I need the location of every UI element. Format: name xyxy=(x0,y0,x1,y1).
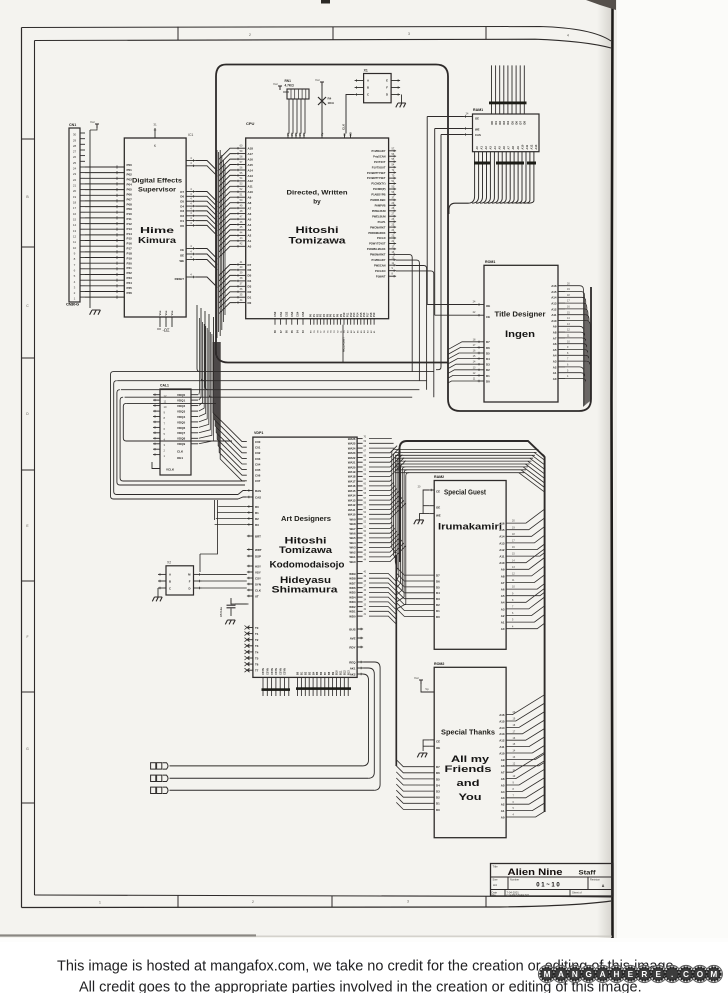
svg-text:B13: B13 xyxy=(347,670,350,675)
svg-text:A7: A7 xyxy=(507,146,511,150)
svg-text:CN1: CN1 xyxy=(69,123,76,127)
svg-text:VDQ9: VDQ9 xyxy=(177,442,186,446)
svg-text:CSYN: CSYN xyxy=(275,668,278,675)
IC U5 right A pins fan to trunk xyxy=(506,509,544,629)
svg-text:21: 21 xyxy=(73,184,77,188)
svg-text:D5: D5 xyxy=(436,777,440,781)
svg-text:A2: A2 xyxy=(501,803,505,807)
wires Art R pins to bundle xyxy=(215,507,247,525)
svg-text:Tomizawa: Tomizawa xyxy=(289,236,346,246)
svg-text:Hideyasu: Hideyasu xyxy=(280,575,331,585)
wires X2 to U4 xyxy=(202,574,247,588)
svg-text:Vss: Vss xyxy=(158,310,162,315)
svg-text:R3: R3 xyxy=(255,523,259,527)
svg-text:A13: A13 xyxy=(499,732,505,736)
svg-text:P23: P23 xyxy=(127,276,133,280)
svg-text:Hitoshi: Hitoshi xyxy=(285,536,327,546)
svg-text:D4: D4 xyxy=(436,591,440,595)
svg-text:A10: A10 xyxy=(520,144,524,149)
page top edge registration mark xyxy=(321,0,330,4)
connector CN1 body xyxy=(69,128,80,302)
svg-text:and: and xyxy=(457,777,480,788)
svg-text:OE: OE xyxy=(486,304,490,308)
svg-text:CLK: CLK xyxy=(177,450,184,454)
svg-text:A14: A14 xyxy=(499,535,505,539)
svg-text:A11: A11 xyxy=(248,185,254,189)
svg-text:A7: A7 xyxy=(553,336,557,340)
svg-text:Staff: Staff xyxy=(579,869,597,876)
svg-text:A16: A16 xyxy=(551,284,557,288)
svg-text:HSY: HSY xyxy=(255,564,261,568)
svg-text:A11: A11 xyxy=(499,745,505,749)
svg-text:CPU: CPU xyxy=(246,121,255,126)
svg-text:A1: A1 xyxy=(479,146,483,150)
wire CN2 to bus xyxy=(170,765,363,767)
svg-text:P1VREADY: P1VREADY xyxy=(372,258,386,262)
svg-text:IC1: IC1 xyxy=(188,133,193,137)
svg-text:A2: A2 xyxy=(553,365,557,369)
svg-text:VDQ7: VDQ7 xyxy=(177,431,186,435)
svg-text:A4: A4 xyxy=(248,223,252,227)
svg-text:P19: P19 xyxy=(127,256,133,260)
svg-text:R2: R2 xyxy=(255,517,259,521)
Special Guest enclosure bus ring with right trunk xyxy=(400,441,545,812)
IC U5 left control pins xyxy=(429,489,434,491)
svg-text:A4: A4 xyxy=(553,354,557,358)
IC U2 left pin labels and stubs xyxy=(236,147,246,149)
power Vcc at U6 xyxy=(420,680,422,684)
svg-text:E: E xyxy=(628,970,634,979)
svg-text:A8: A8 xyxy=(501,764,505,768)
IC U7 left pin stubs xyxy=(464,116,473,118)
svg-text:2: 2 xyxy=(252,900,254,904)
svg-text:ROM2: ROM2 xyxy=(434,662,444,666)
svg-text:A0: A0 xyxy=(501,627,505,631)
IC U2 bottom pins group 1 xyxy=(274,319,276,325)
svg-text:CLK: CLK xyxy=(255,588,262,592)
svg-text:WE: WE xyxy=(436,513,441,517)
svg-text:P1WAIT: P1WAIT xyxy=(376,274,386,278)
svg-text:19: 19 xyxy=(73,195,77,199)
svg-text:H: H xyxy=(614,970,620,979)
svg-text:C01: C01 xyxy=(255,446,261,450)
resistor comb RN2 below U4 xyxy=(262,677,264,696)
IC U5 RAM2 body xyxy=(434,481,506,650)
svg-text:A18: A18 xyxy=(248,147,254,151)
svg-text:P22: P22 xyxy=(127,271,133,275)
svg-text:1KΩ: 1KΩ xyxy=(328,101,335,105)
svg-text:3: 3 xyxy=(407,900,409,904)
svg-text:Tomizawa: Tomizawa xyxy=(279,545,333,555)
svg-text:WA21: WA21 xyxy=(348,461,356,465)
svg-text:WA4: WA4 xyxy=(349,541,356,545)
svg-text:P12: P12 xyxy=(127,222,133,226)
CPU enclosure outline with right trunk down to Ingen bottom xyxy=(226,65,591,412)
svg-text:16: 16 xyxy=(73,212,77,216)
svg-text:WA6: WA6 xyxy=(349,532,356,536)
wire CN4 to bus xyxy=(170,789,375,791)
svg-text:A3: A3 xyxy=(248,228,252,232)
svg-text:CS2: CS2 xyxy=(284,311,288,317)
svg-text:C: C xyxy=(367,93,369,97)
svg-text:A4: A4 xyxy=(493,883,497,887)
svg-text:Art Designers: Art Designers xyxy=(281,514,331,523)
wire CE to Ingen xyxy=(435,314,477,316)
svg-text:PrtySCAN: PrtySCAN xyxy=(373,154,386,158)
svg-text:R4: R4 xyxy=(328,97,332,101)
bus trunk left of Special Guest down to Special Thanks xyxy=(395,555,397,766)
svg-text:P20: P20 xyxy=(127,261,133,265)
svg-text:C02: C02 xyxy=(255,451,261,455)
svg-text:WD0: WD0 xyxy=(349,614,356,618)
svg-text:B: B xyxy=(169,579,171,583)
svg-text:A16: A16 xyxy=(248,157,254,161)
svg-text:Alien Nine: Alien Nine xyxy=(508,867,563,877)
svg-text:P25: P25 xyxy=(127,286,133,290)
IC U2 top pins xyxy=(287,134,289,139)
svg-text:A1: A1 xyxy=(501,621,505,625)
page bottom edge xyxy=(0,934,256,936)
bus RAM1 top data lines to enclosure xyxy=(491,65,493,114)
svg-text:.: . xyxy=(671,970,673,979)
ground at X1 xyxy=(401,95,403,104)
ground at U6 xyxy=(417,753,427,757)
svg-text:Shimamura: Shimamura xyxy=(272,585,339,595)
svg-text:B12: B12 xyxy=(344,670,347,675)
svg-text:Ingen: Ingen xyxy=(505,328,535,339)
svg-text:CAS: CAS xyxy=(475,133,481,137)
oscillator module X1 xyxy=(364,74,392,103)
svg-text:D0: D0 xyxy=(436,615,440,619)
svg-text:WA3: WA3 xyxy=(349,546,356,550)
IC U3 left pins OE CE xyxy=(477,304,484,306)
svg-text:VDQ6: VDQ6 xyxy=(177,426,186,430)
wire verticals RAM to Ingen OE CE xyxy=(426,117,428,305)
svg-text:P01: P01 xyxy=(127,168,133,172)
main horizontal bus lines upper group xyxy=(114,372,434,398)
svg-text:WA2: WA2 xyxy=(349,550,356,554)
svg-text:P13: P13 xyxy=(127,227,133,231)
svg-text:WA19: WA19 xyxy=(348,470,356,474)
svg-text:A17: A17 xyxy=(248,152,254,156)
svg-text:A4: A4 xyxy=(501,601,505,605)
braid tails down to bus xyxy=(197,305,214,397)
svg-text:CE: CE xyxy=(486,315,490,319)
svg-text:CE: CE xyxy=(436,490,440,494)
svg-text:D3: D3 xyxy=(486,363,490,367)
svg-text:B11: B11 xyxy=(340,670,343,675)
IC U6 left control pins xyxy=(429,739,434,741)
svg-text:WA25: WA25 xyxy=(348,442,356,446)
svg-text:D4: D4 xyxy=(248,279,252,283)
svg-text:D1: D1 xyxy=(486,374,490,378)
svg-text:A10: A10 xyxy=(551,319,557,323)
svg-text:A12: A12 xyxy=(529,144,533,149)
svg-text:P10: P10 xyxy=(127,212,133,216)
svg-text:D4: D4 xyxy=(506,121,510,125)
svg-text:OE1: OE1 xyxy=(177,456,183,460)
svg-text:D4: D4 xyxy=(180,204,184,208)
svg-text:D7: D7 xyxy=(436,765,440,769)
svg-text:A: A xyxy=(600,970,606,979)
svg-text:PDROMARCK: PDROMARCK xyxy=(368,231,385,235)
svg-text:DSP: DSP xyxy=(255,554,261,558)
svg-text:WA17: WA17 xyxy=(348,480,356,484)
bus fan WA pins to left lanes xyxy=(369,439,406,562)
svg-text:A: A xyxy=(367,79,369,83)
svg-text:Vd: Vd xyxy=(294,132,298,136)
svg-text:P11: P11 xyxy=(127,217,133,221)
svg-text:VDP1: VDP1 xyxy=(254,431,263,435)
connector CN2 xyxy=(151,763,156,769)
svg-text:T1: T1 xyxy=(255,632,259,636)
svg-text:Supervisor: Supervisor xyxy=(138,187,177,194)
svg-text:3: 3 xyxy=(408,32,410,36)
svg-text:WA24: WA24 xyxy=(348,446,356,450)
svg-text:WD3: WD3 xyxy=(349,600,356,604)
svg-text:4.7KΩ: 4.7KΩ xyxy=(285,84,295,88)
svg-text:A6: A6 xyxy=(248,212,252,216)
svg-text:VDQ8: VDQ8 xyxy=(177,437,186,441)
svg-text:D: D xyxy=(386,93,388,97)
svg-text:Vp: Vp xyxy=(425,687,429,691)
svg-text:T7: T7 xyxy=(255,669,259,673)
svg-text:Vss: Vss xyxy=(170,310,174,315)
svg-text:O: O xyxy=(697,970,704,979)
svg-text:P1DDR.DBC: P1DDR.DBC xyxy=(370,198,385,202)
svg-text:WA26: WA26 xyxy=(348,437,356,441)
wire CN3 to bus xyxy=(170,777,369,779)
svg-text:CS4: CS4 xyxy=(296,311,300,317)
svg-text:RN1: RN1 xyxy=(285,79,292,83)
bus tick bar bottom pin numbers xyxy=(474,162,490,165)
svg-text:P08: P08 xyxy=(127,202,133,206)
svg-text:RAM1: RAM1 xyxy=(473,108,483,112)
wire U4 upper-left L xyxy=(199,554,201,572)
svg-text:A1: A1 xyxy=(501,809,505,813)
wires RN1 to CPU top xyxy=(288,99,290,134)
svg-text:A5: A5 xyxy=(553,348,557,352)
svg-text:A10: A10 xyxy=(248,190,254,194)
svg-text:WA11: WA11 xyxy=(348,508,356,512)
svg-text:WA8: WA8 xyxy=(349,522,356,526)
svg-text:C:\AN9\STAFF.S01: C:\AN9\STAFF.S01 xyxy=(507,893,530,897)
svg-text:WA14: WA14 xyxy=(348,494,356,498)
svg-text:Vcc: Vcc xyxy=(414,676,420,680)
svg-text:T5: T5 xyxy=(255,656,259,660)
svg-text:D5: D5 xyxy=(436,585,440,589)
svg-text:RAS: RAS xyxy=(255,489,261,493)
svg-text:10: 10 xyxy=(73,246,77,250)
svg-text:CE: CE xyxy=(436,740,440,744)
wires RAS CAS jogs xyxy=(238,491,247,500)
svg-text:Special Thanks: Special Thanks xyxy=(441,730,495,737)
wire CLK from X1 to CPU xyxy=(346,95,355,134)
svg-text:D6: D6 xyxy=(486,346,490,350)
svg-text:D1: D1 xyxy=(248,296,252,300)
svg-text:D1: D1 xyxy=(436,609,440,613)
svg-text:PWCMARKT: PWCMARKT xyxy=(370,225,386,229)
svg-text:P19: P19 xyxy=(373,312,376,317)
svg-text:Kodomodaisojo: Kodomodaisojo xyxy=(270,560,346,570)
svg-text:1: 1 xyxy=(99,901,101,905)
svg-text:Sheet of: Sheet of xyxy=(572,890,582,894)
svg-text:24: 24 xyxy=(73,167,77,171)
svg-text:XI: XI xyxy=(343,133,347,136)
svg-text:A0: A0 xyxy=(475,146,479,150)
svg-text:PAMPVB: PAMPVB xyxy=(375,204,386,208)
svg-text:D2: D2 xyxy=(248,290,252,294)
bundle merge diagonals into right trunk SG xyxy=(519,450,545,493)
wire U4 REQ to long vertical xyxy=(363,662,381,790)
bus fan Ingen D pins to left ring xyxy=(448,342,478,383)
svg-text:A12: A12 xyxy=(248,179,254,183)
wire Vcc rail down left of U1 xyxy=(89,130,91,308)
svg-text:WE: WE xyxy=(475,128,480,132)
svg-text:D0: D0 xyxy=(486,379,490,383)
CPU enclosure left edge and bottom trunk xyxy=(216,65,448,363)
svg-text:A15: A15 xyxy=(551,290,557,294)
svg-text:A5: A5 xyxy=(501,594,505,598)
svg-text:A5: A5 xyxy=(498,146,502,150)
svg-text:R1: R1 xyxy=(255,511,259,515)
svg-text:WD4: WD4 xyxy=(349,595,356,599)
IC U4 left pins bottom group xyxy=(247,627,253,629)
svg-text:C06: C06 xyxy=(255,474,261,478)
svg-text:P14: P14 xyxy=(127,232,133,236)
page right edge shadow xyxy=(0,0,1,1)
svg-text:VDQ2: VDQ2 xyxy=(177,404,186,408)
svg-text:VSY: VSY xyxy=(255,570,261,574)
wires CPU right pins to bus corners xyxy=(396,255,434,398)
connector CN3 xyxy=(151,775,156,781)
svg-text:11: 11 xyxy=(73,240,76,244)
IC U8 CAL1 body xyxy=(160,389,191,475)
svg-text:Size: Size xyxy=(493,878,499,882)
svg-text:T0: T0 xyxy=(255,626,259,630)
svg-text:WA9: WA9 xyxy=(349,517,356,521)
svg-text:4: 4 xyxy=(567,34,569,38)
svg-text:D2: D2 xyxy=(486,368,490,372)
svg-text:0 1 ~ 1 0: 0 1 ~ 1 0 xyxy=(536,882,560,888)
svg-text:A: A xyxy=(558,970,564,979)
wire OE to Ingen xyxy=(427,304,477,306)
svg-text:A3: A3 xyxy=(501,607,505,611)
svg-text:D1: D1 xyxy=(180,219,184,223)
svg-text:WA23: WA23 xyxy=(348,451,356,455)
svg-text:PWELBUM: PWELBUM xyxy=(372,214,385,218)
svg-text:A: A xyxy=(602,884,605,888)
svg-text:A2: A2 xyxy=(248,234,252,238)
svg-text:10: 10 xyxy=(164,405,167,409)
svg-text:D4: D4 xyxy=(436,783,440,787)
IC U1 right pins group A xyxy=(186,160,196,162)
svg-text:ROM1: ROM1 xyxy=(485,260,495,264)
frame inner border xyxy=(35,39,612,48)
IC U4 left pins sync group xyxy=(247,565,253,567)
svg-text:12: 12 xyxy=(164,394,167,398)
svg-text:WA12: WA12 xyxy=(348,503,356,507)
wire C5 to U4 xyxy=(231,600,247,605)
svg-text:A10: A10 xyxy=(499,751,505,755)
svg-text:Kimura: Kimura xyxy=(138,235,176,245)
svg-text:A6: A6 xyxy=(501,588,505,592)
svg-text:D6: D6 xyxy=(436,579,440,583)
svg-text:WE: WE xyxy=(179,259,184,263)
svg-text:C05: C05 xyxy=(255,468,261,472)
svg-text:D5: D5 xyxy=(248,274,252,278)
svg-text:A4: A4 xyxy=(501,790,505,794)
svg-text:B10: B10 xyxy=(336,670,339,675)
svg-text:WD1: WD1 xyxy=(349,610,356,614)
IC U7 RAM1 body xyxy=(473,114,540,152)
svg-text:A0: A0 xyxy=(501,815,505,819)
svg-text:BUS: BUS xyxy=(349,627,355,631)
svg-text:R0: R0 xyxy=(255,505,259,509)
svg-text:A1: A1 xyxy=(553,371,557,375)
resistor comb RN3 below U4 xyxy=(297,677,299,696)
svg-text:M: M xyxy=(710,970,717,979)
bus fan Ingen A pins to right ring xyxy=(565,286,590,407)
svg-text:VDQ3: VDQ3 xyxy=(177,410,186,414)
svg-text:SYN: SYN xyxy=(255,582,261,586)
svg-text:C03: C03 xyxy=(255,457,261,461)
capacitor C5 xyxy=(230,598,232,605)
IC U3 left pins D group xyxy=(477,341,484,343)
frame outer border xyxy=(22,27,612,42)
svg-text:P15: P15 xyxy=(127,237,133,241)
svg-text:D5: D5 xyxy=(510,121,514,125)
svg-text:OE: OE xyxy=(436,505,440,509)
svg-text:WA22: WA22 xyxy=(348,456,356,460)
svg-text:Vcc: Vcc xyxy=(315,78,321,82)
frame zone ticks left band xyxy=(22,138,35,140)
svg-text:CS5: CS5 xyxy=(301,311,305,317)
svg-text:D6: D6 xyxy=(180,195,184,199)
svg-text:RESET: RESET xyxy=(175,277,185,281)
svg-text:D5: D5 xyxy=(486,351,490,355)
IC U2 right pin labels and stubs xyxy=(389,150,397,152)
svg-text:D2: D2 xyxy=(180,214,184,218)
svg-text:31: 31 xyxy=(153,123,157,127)
svg-text:AK1: AK1 xyxy=(350,666,356,670)
svg-text:T6: T6 xyxy=(255,663,259,667)
svg-text:POWYTDYST: POWYTDYST xyxy=(369,242,386,246)
svg-text:P1VREADY: P1VREADY xyxy=(372,149,386,153)
IC U6 left D pins chevron fan from trunk xyxy=(396,760,434,810)
svg-text:Irumakamiri: Irumakamiri xyxy=(438,521,502,532)
main horizontal bus line fifth xyxy=(126,402,216,404)
svg-text:A3: A3 xyxy=(488,146,492,150)
svg-text:P26: P26 xyxy=(127,291,133,295)
svg-text:D0: D0 xyxy=(180,224,184,228)
svg-text:A2: A2 xyxy=(484,146,488,150)
svg-text:CS0: CS0 xyxy=(273,311,277,317)
svg-text:T2: T2 xyxy=(255,638,259,642)
svg-text:P21: P21 xyxy=(127,266,133,270)
svg-text:A11: A11 xyxy=(499,555,505,559)
svg-text:CLK: CLK xyxy=(342,123,346,130)
svg-text:A12: A12 xyxy=(551,307,557,311)
svg-text:22: 22 xyxy=(73,178,77,182)
svg-text:A7: A7 xyxy=(248,206,252,210)
svg-text:P1VBNTTYSET: P1VBNTTYSET xyxy=(367,176,386,180)
svg-text:23: 23 xyxy=(73,172,77,176)
svg-text:A13: A13 xyxy=(248,174,254,178)
svg-text:27: 27 xyxy=(73,150,77,154)
svg-text:A4: A4 xyxy=(493,146,497,150)
svg-text:WRT: WRT xyxy=(255,548,262,552)
